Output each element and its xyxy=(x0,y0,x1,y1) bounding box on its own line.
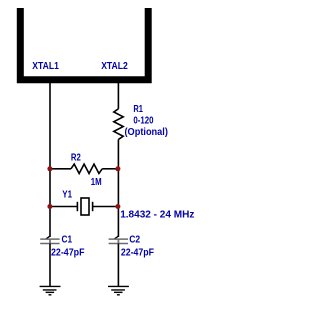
wire: C2 down to ground xyxy=(117,244,119,287)
svg-text:XTAL2: XTAL2 xyxy=(101,61,128,72)
node: junction R2 left xyxy=(47,166,52,171)
wire: R1 to R2/Y1 junctions down to C2 (right rail) xyxy=(117,139,119,237)
svg-text:0-120: 0-120 xyxy=(133,116,153,127)
svg-text:22-47pF: 22-47pF xyxy=(121,247,154,258)
wire: XTAL2 pin down to R1 xyxy=(117,83,119,109)
svg-text:R2: R2 xyxy=(71,153,81,164)
wire: XTAL1 pin down to C1 (left rail) xyxy=(49,83,51,237)
node: junction Y1 right xyxy=(115,204,120,209)
svg-text:(Optional): (Optional) xyxy=(125,127,168,138)
wire: C1 down to ground xyxy=(49,244,51,287)
IC body outline (bottom edge of chip) xyxy=(20,8,148,80)
wire: R2 right stub xyxy=(102,168,118,170)
svg-text:C2: C2 xyxy=(129,235,140,246)
svg-text:22-47pF: 22-47pF xyxy=(51,247,85,258)
resistor R2 xyxy=(71,164,102,173)
svg-text:1.8432 - 24 MHz: 1.8432 - 24 MHz xyxy=(120,210,194,221)
capacitor C2 xyxy=(109,236,128,244)
node: junction Y1 left xyxy=(47,204,52,209)
crystal Y1 xyxy=(77,198,92,215)
capacitor C1 xyxy=(40,236,59,244)
svg-text:Y1: Y1 xyxy=(62,189,72,200)
wire: R2 left stub xyxy=(50,168,71,170)
node: junction R2 right xyxy=(115,166,120,171)
svg-text:1M: 1M xyxy=(91,177,102,188)
svg-text:R1: R1 xyxy=(133,104,143,115)
resistor R1 xyxy=(114,109,123,140)
ground (C2) xyxy=(108,286,129,294)
wire: Y1 left stub xyxy=(50,206,78,208)
svg-text:XTAL1: XTAL1 xyxy=(32,61,59,72)
wire: Y1 right stub xyxy=(93,206,118,208)
svg-text:C1: C1 xyxy=(62,235,73,246)
ground (C1) xyxy=(40,286,61,294)
